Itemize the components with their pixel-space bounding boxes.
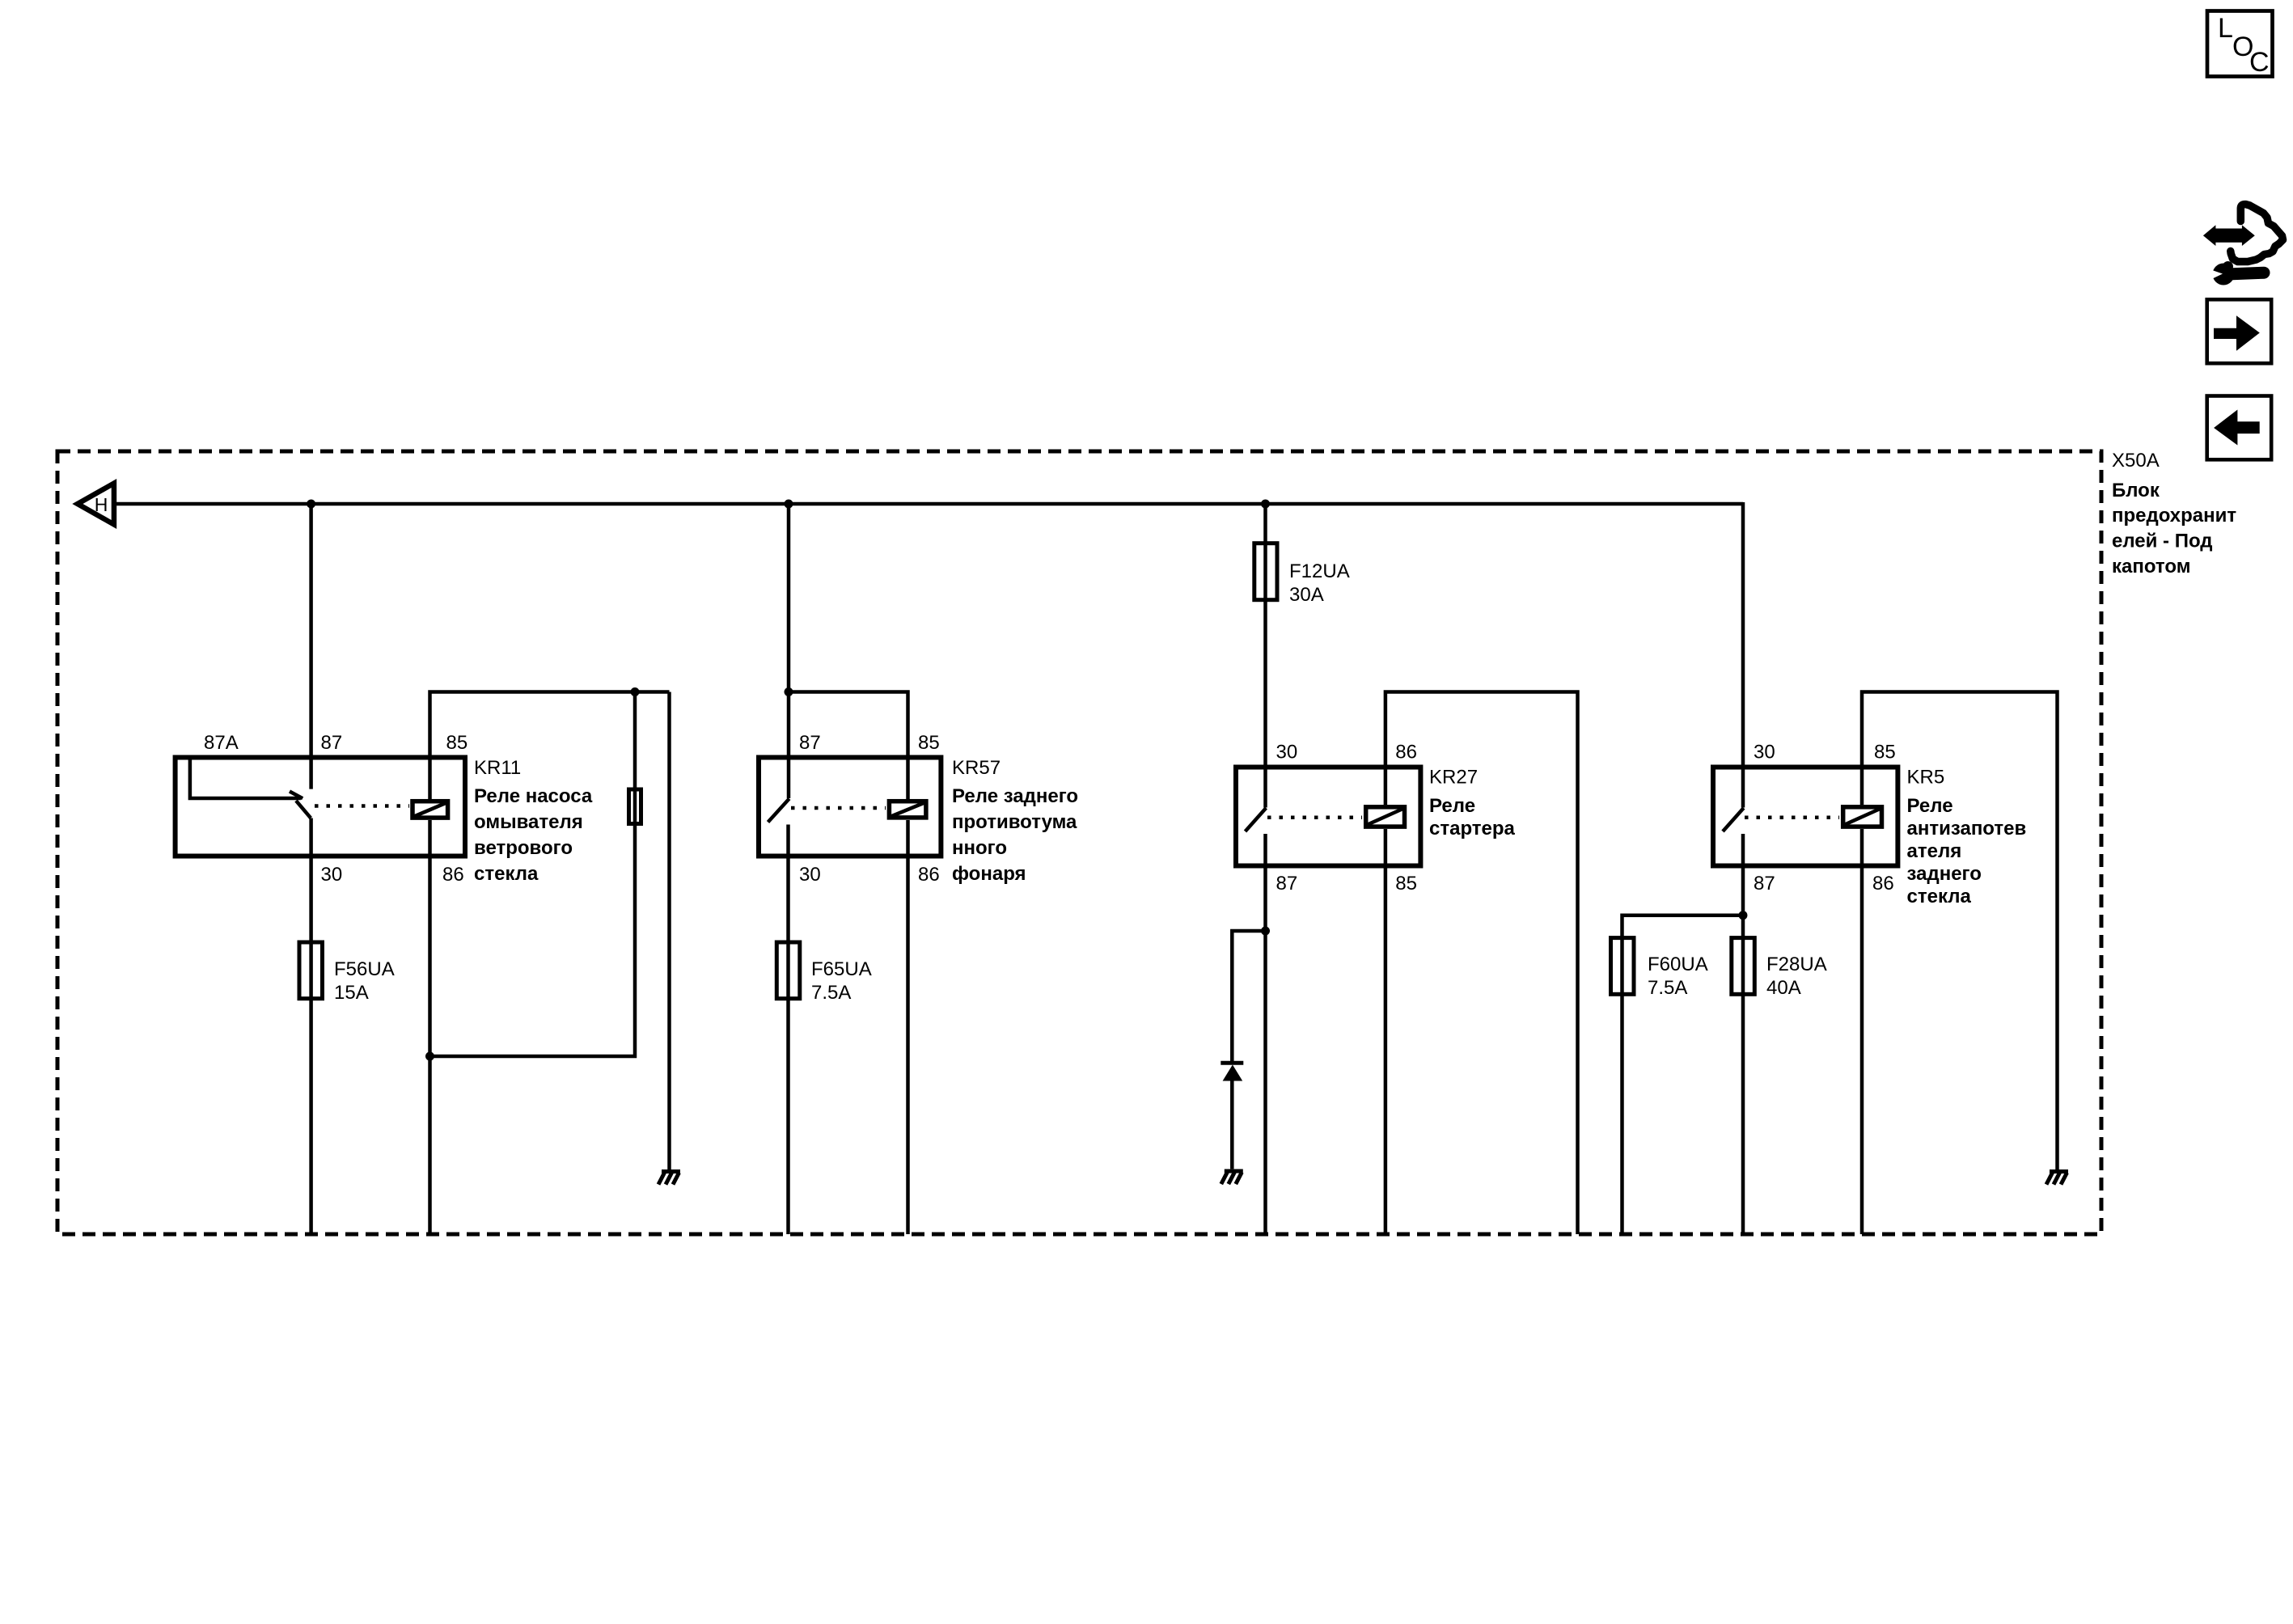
wire KR57 pin 30 down (786, 825, 790, 1235)
node 85-resistor (631, 687, 640, 696)
node bus-KR57 (785, 500, 793, 509)
KR11 switch blade (296, 801, 311, 818)
fuse block description (2112, 480, 2236, 577)
svg-text:87A: 87A (204, 732, 239, 754)
node diode branch (1261, 927, 1270, 936)
KR57 coil (889, 801, 926, 818)
fuse F65UA (776, 942, 800, 999)
service icon (car with double arrow and wrench) (2203, 205, 2283, 285)
svg-text:фонаря: фонаря (952, 863, 1026, 885)
wire to ground KR11 (667, 692, 671, 1170)
svg-text:KR57: KR57 (952, 757, 1001, 779)
KR27 description (1429, 795, 1516, 839)
wire KR5 pin 86 down (1860, 829, 1864, 1234)
wire KR57 pin 86 down (906, 820, 910, 1234)
KR11 coil link (dotted) (315, 804, 409, 808)
wire KR27 pin 85 down (1384, 829, 1388, 1234)
KR5 switch blade (1723, 808, 1744, 831)
ground KR5 (2046, 1172, 2068, 1185)
fuse F28UA (1732, 938, 1755, 995)
resistor branch wire (430, 692, 636, 1057)
svg-text:ателя: ателя (1907, 840, 1962, 862)
node bus-KR11 (307, 500, 315, 509)
svg-text:85: 85 (1395, 873, 1417, 894)
svg-text:87: 87 (799, 732, 821, 754)
main bus wire (116, 502, 1743, 506)
wire diode to ground (1230, 1081, 1234, 1169)
KR27 coil link (dotted) (1267, 816, 1362, 820)
svg-text:7.5A: 7.5A (1648, 977, 1687, 999)
KR11 pin 87A internal lead (190, 758, 301, 799)
svg-text:X50A: X50A (2112, 450, 2160, 472)
svg-text:L: L (2218, 13, 2233, 44)
svg-text:7.5A: 7.5A (811, 982, 851, 1004)
KR5 coil (1843, 807, 1882, 827)
svg-text:Блок: Блок (2112, 480, 2160, 501)
wire KR5 pin 85 up and over to ground (1862, 692, 2058, 1170)
svg-text:KR27: KR27 (1429, 767, 1478, 789)
svg-text:Реле насоса: Реле насоса (474, 785, 593, 807)
fuse F12UA (1254, 543, 1277, 600)
svg-text:стекла: стекла (474, 863, 539, 885)
node 87-85 branch KR57 (785, 687, 793, 696)
wire KR11 pin 85 up (430, 692, 670, 800)
svg-text:30: 30 (799, 864, 821, 886)
relay KR5 box (1713, 768, 1897, 866)
nav arrow box (right) (2207, 299, 2272, 363)
svg-text:85: 85 (918, 732, 940, 754)
relay KR27 box (1236, 768, 1420, 866)
KR57 coil link (dotted) (791, 806, 886, 810)
svg-text:40A: 40A (1766, 977, 1801, 999)
wire KR27 pin 87 down (1263, 834, 1267, 1234)
wire F60UA branch (1622, 916, 1744, 1234)
wire KR5 pin 87 down (1741, 834, 1745, 1234)
node bus-F12UA (1261, 500, 1270, 509)
svg-text:F28UA: F28UA (1766, 954, 1827, 975)
svg-text:Реле: Реле (1907, 795, 1953, 817)
KR57 switch blade (768, 799, 789, 823)
wire bus down to KR57 pin 87 (787, 504, 791, 798)
svg-text:87: 87 (1754, 873, 1775, 894)
svg-text:Реле заднего: Реле заднего (952, 785, 1078, 807)
KR11 contact tick (290, 792, 302, 799)
svg-text:30: 30 (321, 864, 343, 886)
svg-text:30A: 30A (1289, 584, 1324, 606)
ground KR11 (658, 1172, 680, 1185)
off-page connector H (72, 479, 116, 529)
wire KR27 pin 86 up and over (1386, 692, 1578, 1235)
KR11 description (474, 785, 593, 885)
ground diode (1221, 1171, 1243, 1184)
svg-text:елей - Под: елей - Под (2112, 531, 2213, 552)
KR11 coil (412, 801, 448, 818)
svg-text:противотума: противотума (952, 811, 1077, 833)
svg-text:капотом: капотом (2112, 556, 2190, 577)
svg-text:85: 85 (446, 732, 468, 754)
svg-text:30: 30 (1754, 742, 1775, 763)
node 86-junction (425, 1052, 434, 1061)
diode D1 (1221, 1063, 1243, 1081)
svg-text:KR5: KR5 (1907, 767, 1945, 789)
relay KR57 box (759, 758, 941, 856)
svg-text:стартера: стартера (1429, 818, 1516, 839)
svg-text:87: 87 (1276, 873, 1298, 894)
KR27 switch blade (1246, 808, 1267, 831)
svg-text:C: C (2249, 47, 2270, 78)
svg-text:15A: 15A (334, 982, 369, 1004)
LOC box (2207, 11, 2273, 78)
svg-text:ветрового: ветрового (474, 837, 573, 859)
wire branch to KR57 pin 85 (789, 692, 908, 800)
svg-text:омывателя: омывателя (474, 811, 583, 833)
svg-text:F56UA: F56UA (334, 958, 395, 980)
svg-text:86: 86 (1872, 873, 1894, 894)
svg-text:антизапотев: антизапотев (1907, 818, 2027, 839)
dashed box X50A fuse block (57, 451, 2101, 1234)
svg-text:предохранит: предохранит (2112, 505, 2236, 527)
KR27 coil (1366, 807, 1405, 827)
svg-text:86: 86 (918, 864, 940, 886)
wire bus down to fuse F12UA and KR27 pin 30 (1263, 504, 1267, 808)
nav arrow box (left) (2207, 396, 2272, 460)
resistor element (629, 789, 641, 824)
svg-text:заднего: заднего (1907, 863, 1982, 885)
svg-text:F65UA: F65UA (811, 958, 872, 980)
wire KR11 pin 86 down (428, 820, 432, 1234)
svg-text:стекла: стекла (1907, 886, 1972, 907)
svg-text:F12UA: F12UA (1289, 560, 1350, 582)
node F60UA branch (1739, 911, 1748, 920)
svg-text:86: 86 (442, 864, 464, 886)
svg-text:30: 30 (1276, 742, 1298, 763)
fuse F60UA (1611, 938, 1635, 995)
wire bus down to KR5 pin 30 (1741, 502, 1745, 808)
wire bus down to KR11 pin 87 (309, 504, 313, 789)
svg-text:85: 85 (1874, 742, 1896, 763)
wire diode branch (1232, 931, 1265, 1063)
svg-text:Реле: Реле (1429, 795, 1475, 817)
fuse F56UA (299, 942, 323, 999)
KR57 description (952, 785, 1078, 885)
KR5 description (1907, 795, 2027, 907)
svg-text:87: 87 (321, 732, 343, 754)
svg-text:H: H (95, 494, 108, 515)
svg-text:86: 86 (1395, 742, 1417, 763)
wire KR11 pin 30 down (309, 818, 313, 1235)
KR5 coil link (dotted) (1745, 816, 1839, 820)
relay KR11 box (176, 758, 465, 856)
svg-text:F60UA: F60UA (1648, 954, 1708, 975)
svg-text:нного: нного (952, 837, 1007, 859)
svg-text:KR11: KR11 (474, 757, 521, 779)
